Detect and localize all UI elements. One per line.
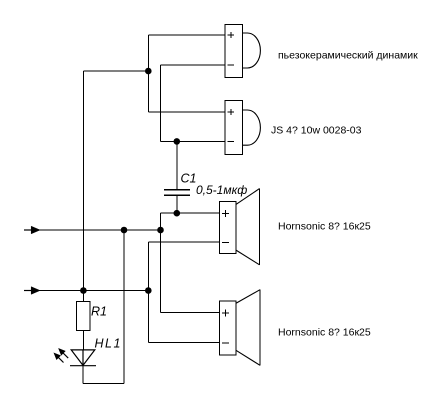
wire from C1 bottom to node C	[176, 195, 178, 213]
LED HL1 emission arrow 2	[59, 349, 68, 358]
wire vertical from node D down to LED return	[123, 230, 125, 384]
junction node B	[174, 138, 181, 145]
wire piezo2 minus lead	[161, 140, 225, 142]
svg-text:Hornsonic 8? 16к25: Hornsonic 8? 16к25	[278, 327, 371, 339]
wire vertical from piezo1 plus down to piezo2 plus	[147, 35, 149, 112]
wire LED return bottom horizontal	[83, 383, 124, 385]
svg-text:HL1: HL1	[95, 337, 122, 351]
wire left rail down to R1	[82, 71, 84, 302]
piezo BA2 plus sign	[228, 109, 234, 115]
junction node C	[174, 210, 181, 217]
wire input 1 horizontal	[24, 229, 161, 231]
capacitor C1	[164, 190, 190, 196]
wire vertical from horn1 minus down to horn2 minus	[147, 242, 149, 343]
wire R1 bottom to LED top	[82, 330, 84, 350]
wire LED cathode down	[82, 366, 84, 384]
junction node E	[157, 227, 164, 234]
svg-text:пьезокерамический динамик: пьезокерамический динамик	[278, 50, 418, 62]
wire horn2 minus lead	[148, 342, 219, 344]
horn BA4 minus sign	[222, 342, 229, 344]
resistor R1	[76, 302, 90, 331]
wire piezo1 plus lead	[148, 34, 225, 36]
LED HL1 emission arrow 1	[54, 353, 63, 362]
wire horn1 plus lead	[161, 212, 220, 214]
wire vertical from piezo1 minus down to piezo2 minus	[160, 65, 162, 141]
wire horn2 plus lead	[161, 312, 220, 314]
LED HL1	[70, 350, 96, 366]
wire from node B down to C1 top	[176, 141, 178, 189]
piezo BA2 minus sign	[228, 141, 234, 143]
wire piezo1 minus lead	[161, 64, 225, 66]
svg-text:C1: C1	[181, 172, 197, 186]
svg-text:R1: R1	[91, 305, 107, 319]
junction node G	[145, 287, 152, 294]
svg-text:Hornsonic 8? 16к25: Hornsonic 8? 16к25	[278, 221, 371, 233]
piezo speaker BA2 body	[225, 101, 260, 155]
svg-text:0,5-1мкф: 0,5-1мкф	[196, 183, 247, 197]
svg-text:JS 4? 10w 0028-03: JS 4? 10w 0028-03	[271, 125, 362, 137]
junction node F	[80, 287, 87, 294]
wire piezo2 plus lead	[148, 111, 225, 113]
junction node D	[121, 227, 128, 234]
piezo speaker BA1 body	[225, 24, 260, 77]
wire horn1 minus lead	[148, 241, 219, 243]
horn BA3 minus sign	[222, 241, 229, 243]
input arrow 2	[24, 287, 40, 295]
wire vertical left of horn1 down to horn2 plus	[160, 213, 162, 313]
wire from node A left to rail	[83, 70, 148, 72]
horn speaker BA3 body	[219, 189, 259, 265]
piezo BA1 minus sign	[228, 64, 234, 66]
input arrow 1	[24, 226, 40, 234]
piezo BA1 plus sign	[228, 32, 234, 38]
junction node A	[145, 68, 152, 75]
horn BA4 plus sign	[222, 309, 229, 316]
horn speaker BA4 body	[219, 290, 260, 366]
horn BA3 plus sign	[222, 210, 229, 217]
wire input 2 horizontal	[24, 290, 148, 292]
